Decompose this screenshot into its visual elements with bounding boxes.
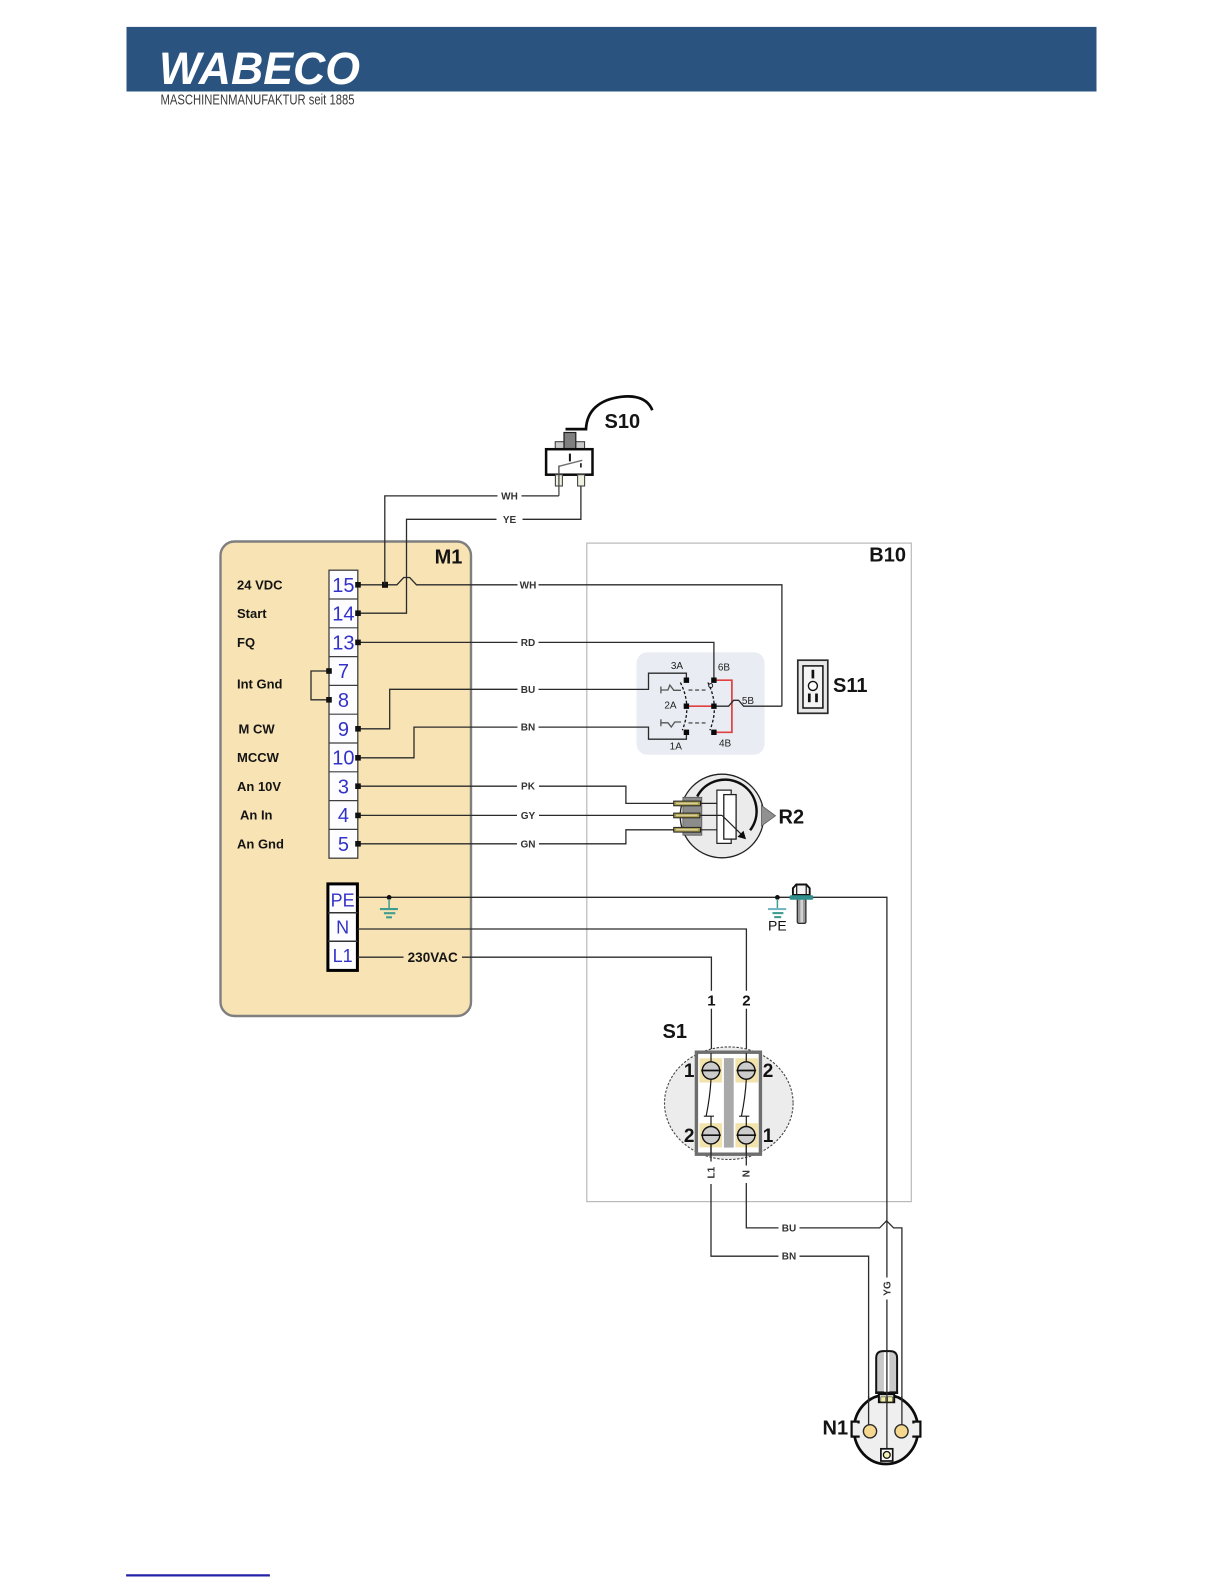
- svg-text:PK: PK: [521, 782, 536, 793]
- S10 contact blade: [559, 460, 582, 466]
- right contact blade (dashed): [708, 683, 714, 731]
- S1 blade right: [739, 1080, 749, 1128]
- svg-text:8: 8: [338, 690, 349, 712]
- S1 terminal pads: [700, 1058, 723, 1082]
- svg-text:230VAC: 230VAC: [408, 950, 458, 965]
- svg-text:S1: S1: [663, 1021, 687, 1043]
- svg-text:10: 10: [332, 748, 354, 770]
- svg-text:An 10V: An 10V: [237, 779, 281, 794]
- header bar WABECO: [127, 27, 1097, 94]
- svg-text:WH: WH: [520, 580, 537, 591]
- svg-text:YE: YE: [503, 515, 517, 526]
- S1 center bar: [724, 1058, 734, 1148]
- svg-text:3A: 3A: [671, 661, 684, 672]
- svg-text:14: 14: [332, 604, 354, 626]
- mains plug N1: [852, 1351, 921, 1464]
- red strap 6B-5B-4B: [714, 680, 732, 732]
- R2 bracket: [717, 790, 731, 843]
- svg-text:1A: 1A: [670, 742, 683, 753]
- svg-text:N: N: [336, 918, 349, 938]
- S1 screw 1 top-left: [702, 1062, 719, 1079]
- actuator symbol bottom: [661, 719, 681, 727]
- svg-text:6B: 6B: [718, 663, 731, 674]
- contact dot 1A: [684, 730, 689, 735]
- R2 housing: [683, 797, 702, 835]
- svg-text:N1: N1: [823, 1418, 849, 1440]
- svg-text:S11: S11: [833, 675, 867, 697]
- N1 side clip left: [852, 1422, 859, 1437]
- N1 side clip right: [913, 1422, 920, 1437]
- S10 actuation arc: [566, 396, 653, 429]
- wire L1 from terminal to S1 pin1 with 230VAC label: [357, 956, 403, 958]
- wire WH from S10 to junction: [522, 495, 559, 497]
- svg-text:YG: YG: [882, 1281, 893, 1296]
- pin dot 4: [355, 813, 361, 819]
- svg-text:4: 4: [338, 805, 349, 827]
- svg-text:WABECO: WABECO: [159, 43, 360, 94]
- wire PE from terminal to right drop (YG): [357, 897, 887, 1277]
- R2 body circle: [680, 774, 764, 858]
- S1 screw bottom-left: [702, 1127, 719, 1144]
- S10 right leg: [578, 475, 585, 486]
- bolt washer: [790, 895, 814, 900]
- svg-text:An In: An In: [240, 808, 273, 823]
- pin numbers: [332, 575, 354, 856]
- svg-text:2: 2: [742, 992, 750, 1009]
- S10 contact tick: [580, 463, 582, 467]
- wire ends into N1: [869, 1392, 902, 1454]
- wire GN pin5 to R2: [358, 843, 517, 845]
- blade pivot circle: [709, 684, 713, 688]
- ground symbol PE at B10: [768, 899, 786, 917]
- svg-text:MASCHINENMANUFAKTUR seit 1885: MASCHINENMANUFAKTUR seit 1885: [161, 92, 355, 109]
- R2 pin top: [674, 801, 701, 806]
- S10 left leg wire: [558, 466, 560, 496]
- svg-text:1: 1: [684, 1061, 695, 1082]
- R2 wiper: [722, 815, 741, 834]
- N1 earth contact: [881, 1449, 893, 1461]
- svg-text:M CW: M CW: [239, 721, 276, 736]
- wire N from terminal to S1 pin2: [357, 929, 746, 991]
- svg-text:M1: M1: [435, 547, 463, 569]
- svg-text:Int Gnd: Int Gnd: [237, 677, 283, 692]
- contact dot 4B: [711, 730, 716, 735]
- pin dot 9: [355, 726, 361, 732]
- wire from S1 bottom-left (L1) to N1 left pin via BN: [710, 1144, 712, 1162]
- pin dot 15: [355, 582, 361, 588]
- svg-text:9: 9: [338, 719, 349, 741]
- bolt hex head: [793, 885, 810, 895]
- svg-text:GY: GY: [521, 811, 536, 822]
- N1 body: [854, 1395, 918, 1464]
- earth bolt: [790, 885, 814, 924]
- contact dot 2A: [684, 704, 689, 709]
- svg-text:3: 3: [338, 776, 349, 798]
- svg-text:BU: BU: [521, 685, 535, 696]
- svg-text:2A: 2A: [664, 701, 677, 712]
- svg-text:1: 1: [763, 1126, 774, 1147]
- left contact blade (dashed): [680, 683, 686, 731]
- bolt shank: [797, 898, 806, 923]
- R2 pin middle: [674, 813, 700, 818]
- svg-text:4B: 4B: [719, 738, 732, 749]
- svg-text:15: 15: [332, 575, 354, 597]
- pin dot 13: [355, 640, 361, 646]
- R2 rotation arc: [697, 780, 756, 831]
- R2 knob pointer: [762, 806, 776, 827]
- S10 body: [546, 449, 592, 475]
- wire YE from S10 to pin14: [523, 465, 581, 520]
- svg-text:BN: BN: [782, 1252, 796, 1263]
- actuator symbol top: [661, 685, 681, 693]
- N1 top notch with tan blocks: [879, 1394, 894, 1402]
- mechanical coupling dashes top: [689, 689, 706, 691]
- wire 5B to WH vertical with hop over red strap: [714, 700, 782, 706]
- N1 cable sleeve: [876, 1351, 897, 1392]
- S1 blade left: [704, 1080, 714, 1128]
- svg-text:PE: PE: [768, 917, 787, 933]
- svg-text:WH: WH: [501, 491, 518, 502]
- pin dot 14: [355, 610, 361, 616]
- S1 screw 2 top-right: [738, 1062, 755, 1079]
- contact dot 5B-mid: [711, 704, 716, 709]
- svg-text:RD: RD: [521, 638, 535, 649]
- junction on 24VDC wire: [382, 582, 388, 588]
- wire 24VDC pin15 to 5B (WH) with hop over YE: [358, 578, 518, 585]
- svg-text:B10: B10: [869, 545, 906, 567]
- limit switch S10: [546, 396, 652, 495]
- svg-text:PE: PE: [331, 890, 355, 910]
- junction dot on PE wire (right): [775, 895, 780, 900]
- R2 pin links: [701, 803, 723, 829]
- svg-text:MCCW: MCCW: [237, 750, 280, 765]
- ground symbol at M1 PE: [380, 899, 398, 917]
- svg-text:S10: S10: [605, 411, 641, 433]
- controller block M1: [221, 542, 472, 1017]
- svg-text:N: N: [742, 1170, 753, 1177]
- S10 stem: [569, 454, 571, 462]
- S10 collar: [555, 442, 584, 450]
- svg-text:BN: BN: [521, 723, 535, 734]
- svg-text:GN: GN: [521, 839, 536, 850]
- svg-text:13: 13: [332, 632, 354, 654]
- svg-text:24 VDC: 24 VDC: [237, 577, 283, 592]
- svg-text:2: 2: [763, 1061, 774, 1082]
- mechanical coupling dashes bottom: [689, 722, 706, 724]
- Int Gnd strap wire pins 7-8: [311, 671, 329, 700]
- M1 signal name labels: [237, 577, 284, 851]
- S10 plunger: [564, 433, 576, 454]
- svg-text:2: 2: [684, 1126, 695, 1147]
- contact block background: [637, 652, 765, 755]
- svg-text:5B: 5B: [742, 696, 755, 707]
- R2 wiper arrowhead: [738, 831, 747, 839]
- svg-text:BU: BU: [782, 1223, 796, 1234]
- svg-text:An Gnd: An Gnd: [237, 837, 284, 852]
- junction dot on PE wire (left): [387, 895, 392, 900]
- svg-text:Start: Start: [237, 606, 267, 621]
- S10 left leg: [555, 475, 562, 486]
- pin dot 7: [326, 668, 332, 674]
- svg-text:L1: L1: [333, 946, 353, 966]
- wire BU pin9 to 3A: [358, 689, 518, 729]
- svg-text:R2: R2: [779, 807, 805, 829]
- wire from S1 bottom-right (N) to N1 right pin via BU with hop over YG: [745, 1144, 747, 1166]
- mains switch S1: [665, 1047, 794, 1160]
- svg-text:L1: L1: [706, 1166, 717, 1178]
- S1 screw bottom-right: [738, 1127, 755, 1144]
- wire BN pin10 to 1A: [358, 727, 518, 758]
- N1 pin hole left: [863, 1425, 876, 1438]
- contact dot 6B: [711, 678, 716, 683]
- wire RD pin13 to 6B: [358, 641, 518, 643]
- S1 outline ellipse: [665, 1047, 794, 1160]
- svg-text:FQ: FQ: [237, 635, 255, 650]
- footer line: [126, 1574, 270, 1576]
- potentiometer R2: [674, 774, 776, 858]
- svg-text:5: 5: [338, 834, 349, 856]
- svg-text:1: 1: [707, 992, 715, 1009]
- R2 pin bottom: [674, 827, 701, 832]
- R2 resistor element: [724, 795, 736, 840]
- pin dot 8: [326, 697, 332, 703]
- red strap 2A to mid contact: [686, 705, 714, 707]
- B10 box: [587, 543, 912, 1202]
- pin dot 3: [355, 783, 361, 789]
- wire PK pin3 to R2: [358, 785, 517, 787]
- switch S11: [798, 660, 828, 713]
- N1 pin hole right: [895, 1425, 908, 1438]
- wire GY pin4 to R2: [358, 814, 517, 816]
- S1 frame: [696, 1052, 760, 1154]
- S1 wire stubs over frame: [711, 1053, 746, 1154]
- pin dot 5: [355, 841, 361, 847]
- svg-text:7: 7: [338, 661, 349, 683]
- mains terminal block PE N L1: [328, 884, 358, 971]
- pin dot 10: [355, 755, 361, 761]
- contact dot 3A: [684, 678, 689, 683]
- M1 pin terminal strip: [329, 570, 358, 858]
